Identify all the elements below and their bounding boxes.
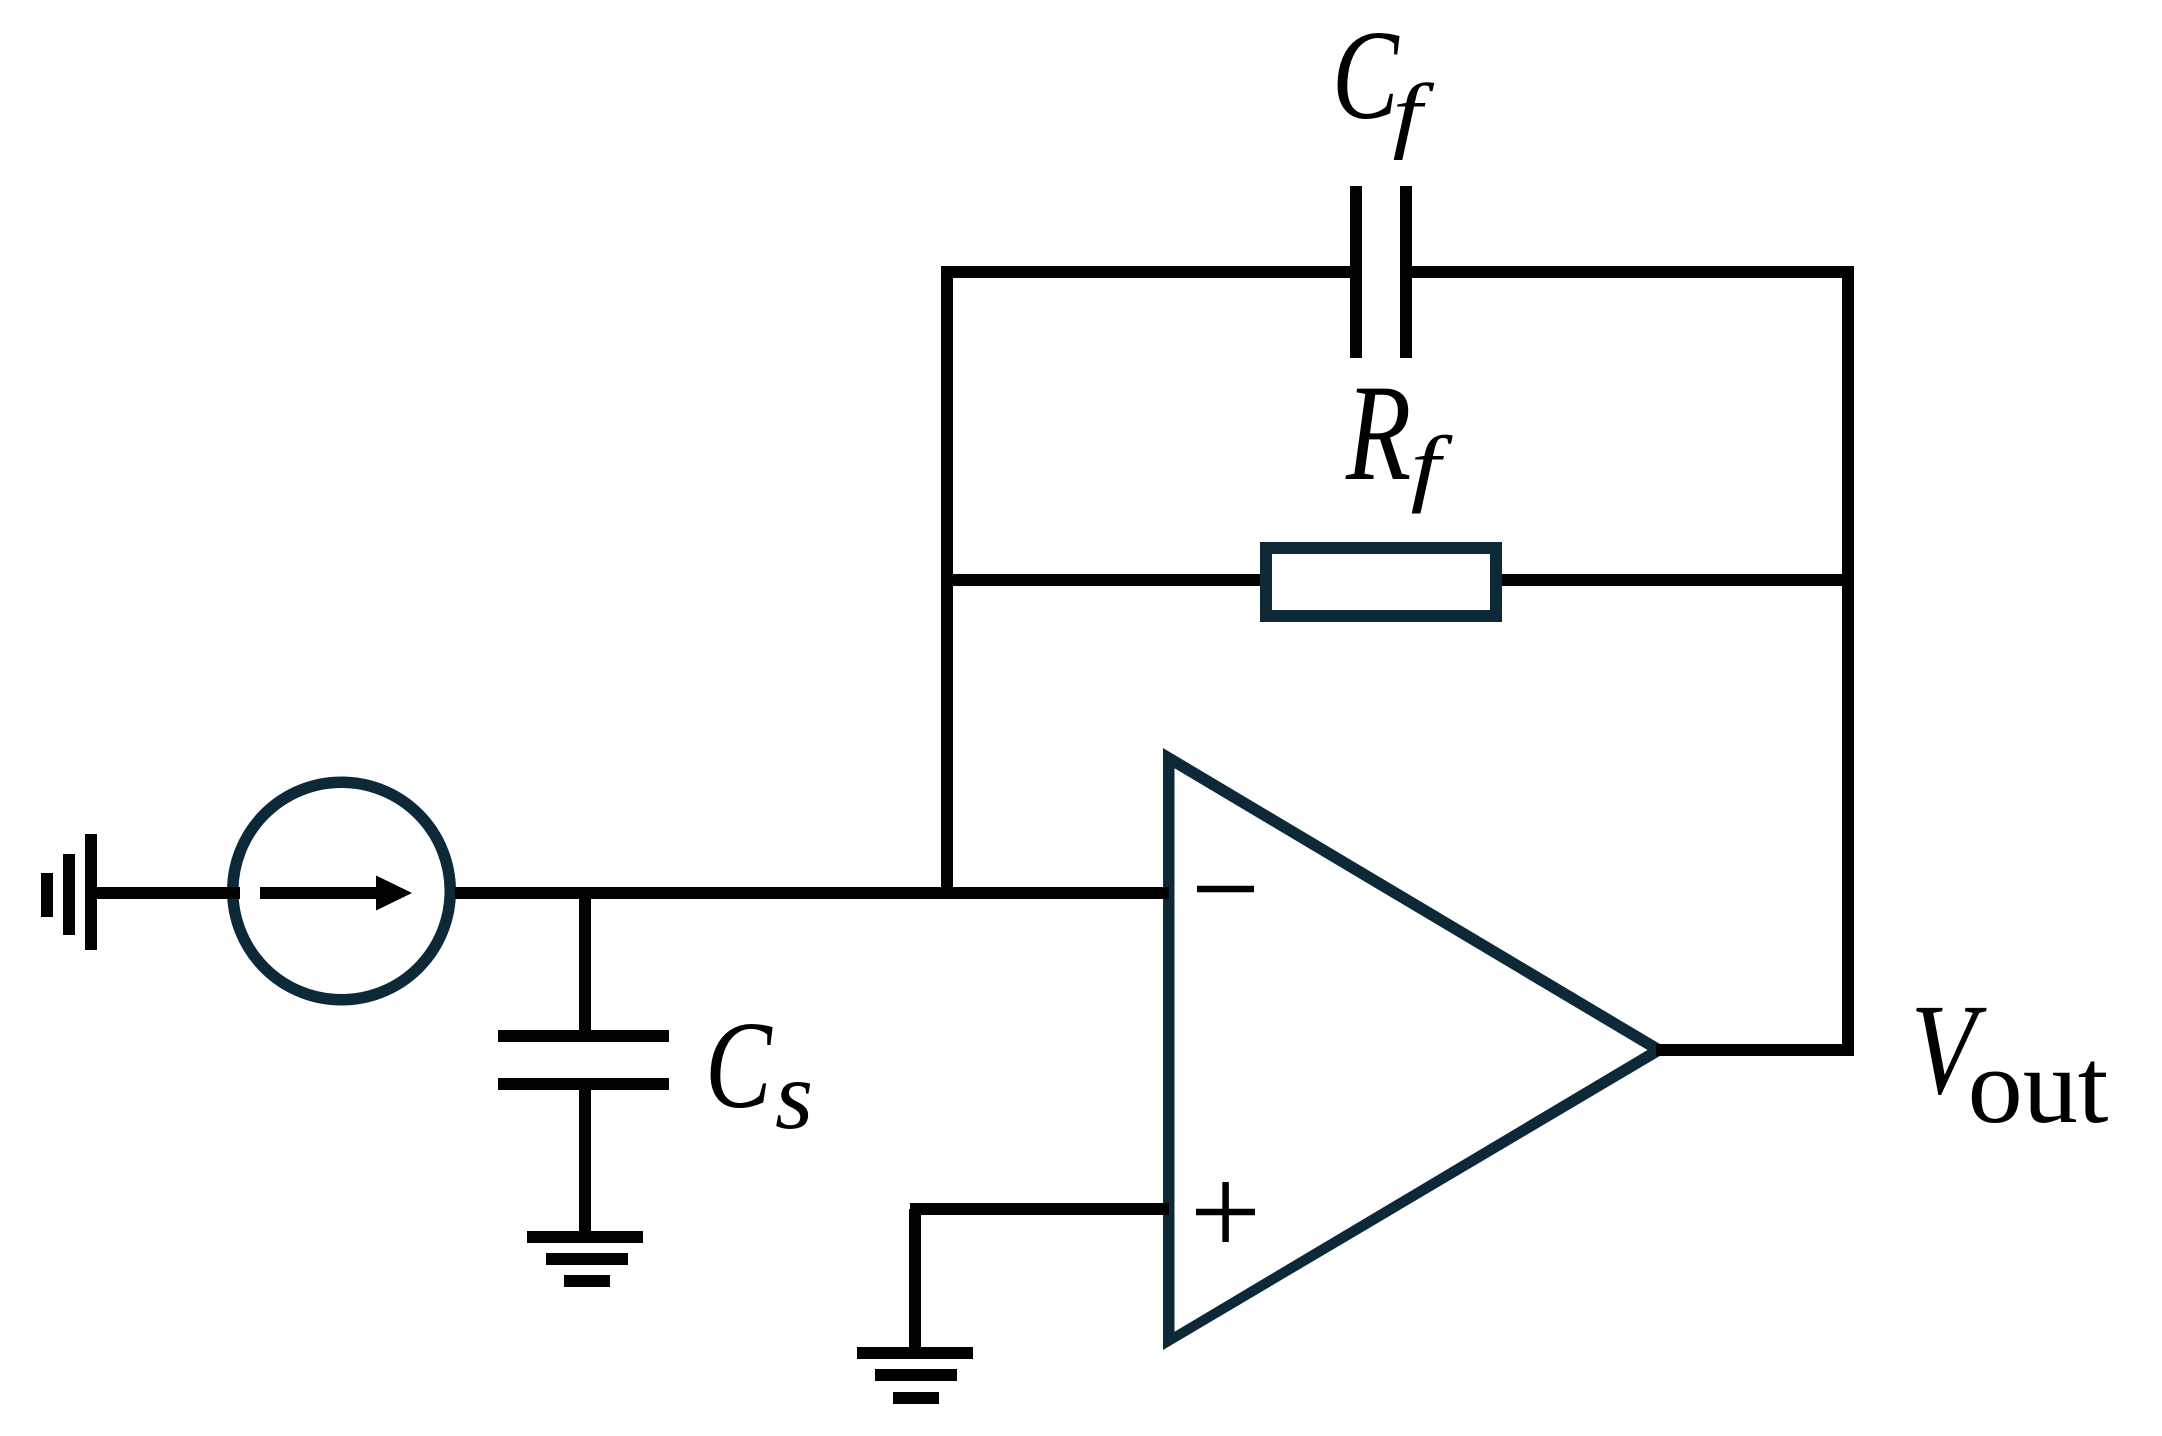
svg-text:out: out xyxy=(1968,1027,2109,1145)
svg-text:C: C xyxy=(1332,4,1400,146)
svg-text:R: R xyxy=(1345,356,1411,509)
svg-text:s: s xyxy=(775,1042,813,1150)
svg-text:C: C xyxy=(705,997,773,1135)
